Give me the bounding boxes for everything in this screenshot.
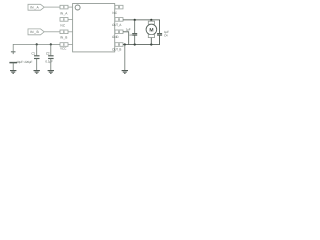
junction C1 top — [36, 43, 38, 45]
svg-text:GND: GND — [112, 35, 119, 39]
svg-text:0.1µF: 0.1µF — [45, 59, 53, 63]
capacitor C4 — [157, 34, 162, 36]
pin NC right — [112, 5, 123, 15]
capacitor CE electrolytic — [9, 52, 17, 70]
junction motor top — [150, 19, 152, 21]
pin OUT_B — [112, 43, 123, 52]
junction C2 top — [50, 43, 52, 45]
svg-text:C4: C4 — [164, 34, 168, 38]
svg-text:C1: C1 — [31, 51, 35, 55]
pin-1 notch — [75, 5, 80, 10]
pin VCC — [60, 43, 73, 51]
svg-text:OUT_B: OUT_B — [112, 47, 121, 51]
ground C1 — [34, 71, 40, 74]
ground C2 — [48, 71, 54, 74]
svg-text:OUT_A: OUT_A — [112, 23, 122, 27]
svg-text:10µF~220µF: 10µF~220µF — [16, 60, 32, 64]
svg-text:IN_A: IN_A — [60, 11, 68, 15]
wire IN_B — [44, 31, 60, 33]
svg-text:IN_B: IN_B — [60, 35, 68, 39]
pin NC left — [60, 18, 73, 28]
junction C3 top — [134, 19, 136, 21]
junction gnd drop — [124, 43, 126, 45]
motor M1 — [146, 20, 157, 45]
wire gnd drop — [124, 45, 126, 71]
node IN_A flag — [28, 4, 44, 10]
ground right — [122, 71, 128, 74]
wire OUT_B net — [123, 35, 160, 45]
capacitor C2 — [48, 44, 54, 70]
svg-text:C2: C2 — [46, 51, 50, 55]
svg-text:NC: NC — [60, 24, 65, 28]
svg-text:IN_B: IN_B — [30, 30, 40, 34]
wire VCC rail — [13, 44, 60, 51]
ground CE — [10, 71, 16, 74]
node IN_B flag — [28, 29, 44, 35]
IC U1 motor driver — [73, 4, 115, 52]
svg-text:IN_A: IN_A — [30, 5, 40, 9]
pin GND — [112, 30, 123, 39]
junction C3 bottom — [134, 43, 136, 45]
capacitor C3 — [132, 20, 137, 45]
wire GND pin bend — [123, 32, 129, 45]
wire OUT_A net — [123, 20, 160, 33]
capacitor C1 — [34, 44, 40, 70]
junction motor bottom — [150, 43, 152, 45]
pin IN_B — [60, 30, 73, 39]
pin IN_A — [60, 5, 73, 15]
svg-text:1µF: 1µF — [126, 28, 131, 32]
pin OUT_A — [112, 18, 123, 27]
svg-text:M: M — [149, 27, 153, 33]
wire IN_A — [44, 6, 60, 8]
svg-text:VCC: VCC — [60, 46, 67, 50]
svg-text:C3: C3 — [128, 33, 132, 37]
svg-text:NC: NC — [112, 11, 117, 15]
